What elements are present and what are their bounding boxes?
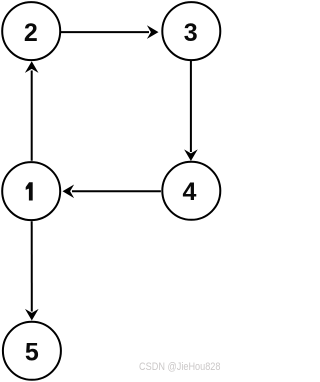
node 3 [162, 2, 220, 60]
arrowhead into node 1 [63, 185, 75, 199]
arrowhead into node 2 [25, 61, 39, 73]
arrowhead into node 5 [25, 309, 39, 321]
edge 4->1 : wire [63, 185, 161, 199]
node 2 [2, 2, 60, 60]
svg-text:4: 4 [182, 178, 196, 206]
arrowhead into node 4 [184, 149, 198, 161]
node 1 [2, 162, 60, 220]
edge 3->4 : wire [184, 61, 198, 161]
svg-text:CSDN @JieHou828: CSDN @JieHou828 [139, 361, 221, 373]
svg-text:2: 2 [24, 19, 38, 47]
edge 1->2 : wire [25, 61, 39, 160]
edge 2->3 : wire [61, 25, 159, 39]
node 4 [162, 162, 220, 220]
node 5 [3, 322, 61, 380]
svg-text:5: 5 [25, 338, 39, 366]
edge 1->5 : wire [25, 221, 39, 320]
arrowhead into node 3 [147, 25, 159, 39]
svg-text:3: 3 [184, 19, 198, 47]
